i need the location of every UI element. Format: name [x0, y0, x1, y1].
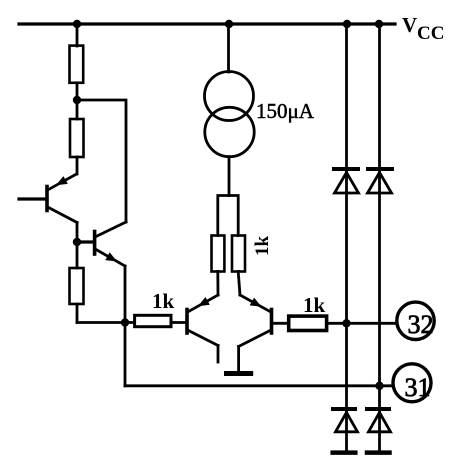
- svg-text:1k: 1k: [252, 236, 273, 257]
- node rail/current-source: [225, 20, 233, 28]
- diode D3: [333, 409, 358, 432]
- wire node A to R2: [76, 100, 79, 119]
- wire Q1 base lead: [19, 197, 47, 200]
- wire R4 to Q3 base: [171, 321, 187, 324]
- node rail/D1: [343, 20, 351, 28]
- svg-text:150μA: 150μA: [256, 99, 315, 123]
- current source I1 bottom circle: [205, 107, 254, 156]
- transistor Q4: [239, 295, 272, 347]
- resistor R6: [232, 236, 245, 272]
- resistor R3: [70, 268, 84, 304]
- wire R5 to Q3 emitter: [216, 271, 219, 295]
- transistor Q3: [187, 295, 218, 346]
- wire node B to R3: [76, 242, 79, 268]
- wire R6 to Q4 emitter: [238, 271, 240, 295]
- wire Vcc top rail: [19, 22, 395, 25]
- wire R3 node to R4: [77, 321, 135, 324]
- resistor R2: [70, 119, 84, 157]
- wire rail to current source: [227, 24, 230, 72]
- node B: [73, 238, 81, 246]
- wire D1 vertical: [345, 24, 348, 451]
- terminal 31: [393, 364, 431, 402]
- wire R2 to Q1 emitter: [76, 157, 79, 174]
- svg-text:32: 32: [408, 310, 434, 339]
- svg-text:CC: CC: [417, 23, 444, 44]
- wire Q1 collector to node B: [76, 223, 79, 243]
- diode D4: [367, 409, 391, 432]
- ground: [227, 371, 251, 376]
- wire Q4 base to R7: [272, 322, 289, 325]
- node 31/D2: [375, 382, 383, 390]
- wire R3 down: [76, 304, 79, 323]
- wire D2 vertical: [378, 24, 381, 451]
- svg-text:1k: 1k: [303, 293, 326, 317]
- node 32/D1: [342, 319, 350, 327]
- wire 31 line: [125, 384, 393, 387]
- resistor R1: [70, 46, 84, 83]
- wire R7 to terminal 32: [327, 322, 397, 325]
- wire Q3 collector stub: [217, 346, 220, 363]
- terminal bar D3: [333, 450, 356, 455]
- terminal bar D4: [367, 450, 390, 455]
- wire R1 to node A: [76, 83, 79, 100]
- resistor R5: [212, 236, 225, 272]
- node A: [73, 96, 81, 104]
- label Vcc: [402, 13, 444, 44]
- svg-text:31: 31: [405, 373, 431, 402]
- resistor R4: [135, 315, 171, 326]
- diode D1: [334, 169, 359, 193]
- transistor Q1: [47, 174, 77, 223]
- wire rail to R1: [76, 24, 79, 46]
- wire Q2 emitter down to 31 line: [124, 266, 127, 386]
- resistor R7: [289, 316, 327, 330]
- current source I1 top circle: [205, 72, 254, 121]
- terminal 32: [397, 302, 434, 339]
- wire current source to resistor pair: [228, 157, 231, 196]
- wire Q4 collector to ground: [237, 347, 240, 373]
- svg-text:1k: 1k: [152, 289, 175, 313]
- wire node B to Q2 base: [77, 240, 94, 243]
- transistor Q2: [95, 222, 126, 266]
- node C: [121, 318, 129, 326]
- node rail/R1: [73, 20, 81, 28]
- svg-text:V: V: [402, 13, 417, 37]
- diode D2: [368, 169, 393, 193]
- node rail/D2: [375, 20, 383, 28]
- wire resistor pair top bar: [218, 196, 238, 236]
- wire node A to Q2 collector: [77, 100, 126, 222]
